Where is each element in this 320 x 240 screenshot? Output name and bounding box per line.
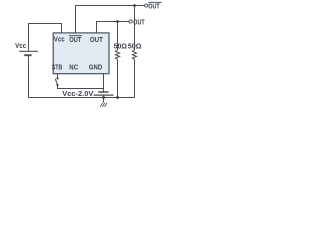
resistor R1 zigzag [115,50,119,60]
svg-text:Vcc: Vcc [54,35,65,44]
resistor R2 zigzag [132,50,136,60]
ground symbol hatch 1 [100,103,102,107]
junction dot battery B2 / rail [102,96,105,99]
svg-text:Vcc: Vcc [15,41,26,50]
junction dot OUT rail / R1 [116,20,119,23]
wire Vcc pin up-left to supply battery [29,24,62,51]
wire switch to VTT battery node [58,86,104,89]
junction dot top rail / R2 [133,4,136,7]
overline of OUT-bar terminal label [148,1,161,3]
wire OUT rail down to R1 [117,22,119,51]
ground symbol hatch 3 [105,103,107,107]
ground symbol hatch 2 [102,103,104,107]
wire GND pin down to battery B2 [103,74,105,92]
svg-text:OUT: OUT [133,18,145,27]
battery B1 short plate (-) [24,54,31,56]
ground rail (bottom wire) [29,97,135,99]
battery B2 short plate (-) top [98,91,108,93]
wire OUT pin up to second rail, right to terminal [97,22,130,33]
IC U1 body [53,33,109,74]
wire OUT-bar pin up to top rail, right to terminal [76,6,145,33]
svg-text:NC: NC [69,62,78,71]
junction dot R1 / rail [116,96,119,99]
switch SW1 lever [55,79,57,84]
svg-text:STB: STB [52,62,63,71]
wire R1 bottom to ground rail [117,60,119,98]
switch SW1 top contact dot [56,77,58,79]
wire battery B2 to ground rail [103,95,105,97]
wire R2 bottom to ground rail [134,60,136,98]
svg-text:50Ω: 50Ω [114,42,128,51]
svg-text:Vcc-2.0V: Vcc-2.0V [62,89,93,98]
overline of OUT-bar pin label [69,35,82,37]
wire battery B1 bottom down to ground rail [28,56,30,98]
terminal circle OUT-bar [145,4,148,7]
switch SW1 bottom contact dot [56,84,58,86]
svg-text:GND: GND [89,62,103,71]
svg-text:OUT: OUT [90,35,103,44]
wire top rail down to R2 [134,6,136,51]
terminal circle OUT [129,20,132,23]
battery B1 long plate (+) [19,50,38,52]
battery B2 long plate (+) bottom [94,94,114,96]
ground stub [103,98,105,103]
wire STB stub down from IC [57,73,59,77]
